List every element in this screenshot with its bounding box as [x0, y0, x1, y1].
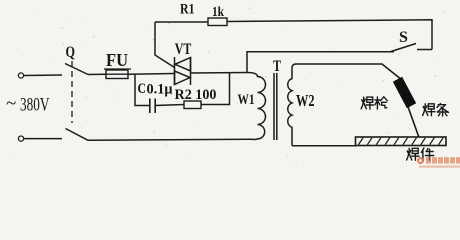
- svg-text:380V: 380V: [20, 95, 50, 116]
- workpiece bar (hatched): [356, 137, 447, 146]
- svg-text:W2: W2: [296, 91, 315, 110]
- svg-text:FU: FU: [106, 50, 128, 70]
- wire: bottom rail Q to W1: [88, 139, 252, 140]
- label FU (underlined): [104, 50, 131, 70]
- wire: R1 top rail: [155, 20, 432, 50]
- wire: S to node A: [247, 52, 394, 73]
- label hantiao (welding rod): [423, 104, 449, 117]
- svg-text:R1: R1: [180, 2, 195, 18]
- capacitor C 0.1u: [150, 99, 155, 114]
- svg-text:0.1μ: 0.1μ: [147, 82, 174, 98]
- svg-text:R2 100: R2 100: [175, 87, 217, 103]
- wire: main top rail from terminal to triac: [24, 74, 62, 77]
- svg-text:S: S: [399, 29, 408, 46]
- triac VT: [175, 57, 191, 85]
- switch Q gang link (dashed): [71, 61, 73, 123]
- transformer core: [274, 73, 277, 140]
- wire: W2 bottom rail to workpiece: [292, 145, 357, 147]
- label ~380V: [6, 93, 50, 116]
- wire: R2 to main rail: [201, 73, 230, 105]
- wire: C to R2: [155, 105, 184, 106]
- label hanqiang (welding gun): [361, 97, 387, 109]
- svg-text:~: ~: [6, 93, 16, 114]
- switch Q bottom blade: [66, 129, 89, 141]
- snubber left lead (to capacitor C): [135, 74, 150, 106]
- transformer secondary winding W2: [288, 64, 296, 146]
- switch S blade: [391, 44, 416, 52]
- electrode wire from gun to workpiece: [407, 104, 419, 138]
- switch Q top blade: [65, 64, 88, 75]
- svg-text:1k: 1k: [212, 4, 224, 19]
- welding gun body (black): [393, 77, 416, 108]
- wire: W2 top to welding gun: [296, 64, 402, 80]
- svg-text:C: C: [138, 81, 147, 97]
- watermark logo bottom right: [417, 157, 460, 168]
- wire: triac to node A: [191, 72, 248, 75]
- switch S stub: [417, 49, 432, 51]
- svg-text:VT: VT: [175, 41, 192, 58]
- terminal top (380V): [18, 73, 23, 78]
- resistor R1: [208, 18, 227, 26]
- svg-text:Q: Q: [66, 44, 76, 61]
- label hanjian (workpiece): [407, 148, 434, 160]
- wire: bottom rail (primary): [24, 138, 62, 140]
- fuse FU: [106, 70, 128, 79]
- terminal bottom (380V): [18, 136, 23, 141]
- resistor R2: [184, 101, 201, 109]
- transformer primary winding W1: [247, 73, 266, 140]
- svg-text:W1: W1: [238, 92, 255, 108]
- wire: gate lead of VT: [155, 22, 175, 68]
- svg-text:T: T: [273, 58, 281, 75]
- wire: Q to fuse: [88, 73, 106, 75]
- wire: fuse to triac: [128, 73, 175, 76]
